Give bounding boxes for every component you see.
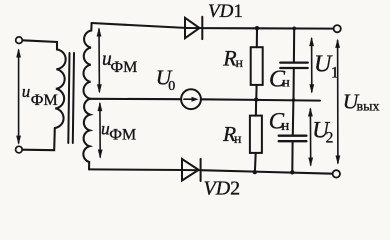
arrow u_FM lower: [98, 102, 103, 159]
svg-text:н: н: [281, 118, 289, 134]
terminal top-left: [16, 37, 23, 44]
svg-text:ФМ: ФМ: [109, 126, 136, 143]
wire primary bottom lead: [22, 128, 55, 150]
diode VD1: [185, 17, 202, 39]
node top C: [292, 27, 296, 31]
diode VD2: [182, 159, 201, 181]
svg-text:VD1: VD1: [208, 1, 243, 22]
node bottom R: [253, 170, 257, 174]
capacitor C1: [280, 63, 307, 68]
resistor R1 branch lead top: [256, 28, 258, 47]
svg-text:VD2: VD2: [204, 178, 241, 200]
wire primary top lead: [22, 40, 57, 49]
source U0: [181, 89, 201, 109]
capacitor C1 lead bottom: [292, 69, 294, 100]
terminal bottom-right: [333, 170, 340, 177]
wire bottom rail left: [89, 168, 182, 171]
node bottom C: [290, 170, 294, 174]
arrow U1: [309, 37, 314, 94]
arrow u_FM upper: [97, 27, 102, 93]
terminal top-right: [334, 25, 341, 32]
resistor R1 lead bottom: [255, 85, 257, 100]
resistor R2 lead bottom: [254, 153, 257, 172]
arrow Uout: [335, 39, 340, 165]
svg-text:ФМ: ФМ: [111, 59, 138, 76]
terminal bottom-left: [16, 146, 23, 153]
capacitor C1 lead top: [293, 28, 295, 61]
svg-text:н: н: [234, 132, 242, 147]
node mid C: [292, 98, 296, 102]
wire top rail: [92, 23, 185, 28]
resistor R2: [250, 116, 262, 153]
svg-text:н: н: [236, 56, 244, 71]
wire bottom rail right: [201, 170, 333, 174]
capacitor C2 lead bottom: [291, 142, 293, 172]
svg-text:ФМ: ФМ: [31, 92, 58, 109]
primary winding L1: [55, 50, 66, 129]
svg-text:0: 0: [168, 79, 175, 94]
resistor R2 lead top: [255, 100, 257, 116]
node top R: [255, 26, 259, 30]
resistor R1: [251, 47, 263, 85]
svg-text:2: 2: [326, 130, 334, 147]
secondary winding upper half: [83, 23, 91, 99]
wire mid right: [201, 99, 320, 100]
secondary winding lower half: [83, 99, 90, 170]
svg-text:u: u: [22, 82, 31, 101]
svg-text:1: 1: [331, 64, 339, 81]
wire top rail right: [201, 27, 333, 30]
node mid R: [254, 97, 258, 101]
capacitor C2: [279, 136, 307, 142]
svg-text:н: н: [282, 76, 290, 91]
wire mid left: [90, 98, 181, 100]
arrow u_FM left: [16, 48, 21, 145]
core: [68, 53, 69, 143]
capacitor C2 lead top: [292, 100, 295, 135]
arrow U2: [308, 107, 313, 167]
svg-text:вых: вых: [357, 100, 380, 115]
